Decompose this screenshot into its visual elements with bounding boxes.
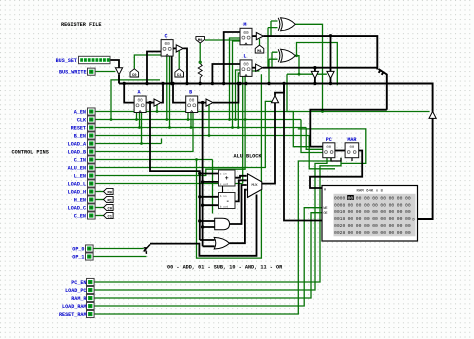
buffer bus out 2 (down) [327,71,334,78]
svg-text:B: B [189,90,192,96]
svg-text:0010: 0010 [334,209,345,215]
svg-text:LOAD_A: LOAD_A [68,141,87,147]
svg-text:ALU_EN: ALU_EN [68,165,86,171]
wire CLK net [95,38,323,153]
svg-text:0020: 0020 [334,223,345,229]
svg-text:00: 00 [364,195,370,201]
mux U7 [248,174,262,198]
or gate U6 [214,237,229,249]
svg-text:00: 00 [380,202,386,208]
svg-text:OE: OE [324,212,328,216]
svg-text:b out: b out [220,204,229,208]
junction B out [201,101,204,104]
svg-text:MUX: MUX [251,184,257,188]
svg-text:RAM 64K x 8: RAM 64K x 8 [356,190,383,194]
svg-text:H_EN: H_EN [74,197,86,203]
wire A_EN row [95,105,323,147]
wire B to ALU [203,103,219,247]
wire C_IN loop [95,74,261,258]
svg-text:00: 00 [372,230,378,236]
wire register C data in [147,52,172,84]
wire adder carry chain [222,186,224,193]
svg-text:00: 00 [356,195,362,201]
tunnel M1 sink [104,196,114,203]
junction L bus dots [313,34,332,69]
wire PC MAR green box [298,129,366,164]
wire register L data in [212,64,240,84]
svg-text:M1: M1 [257,50,262,54]
svg-text:00: 00 [348,209,354,215]
svg-text:00: 00 [397,223,403,229]
pin B_EN [88,132,96,139]
junction CLK dots [110,118,237,121]
wire bus to PC data [310,110,387,147]
wire MAR to RAM address [310,151,362,189]
svg-text:00: 00 [405,202,411,208]
register A [134,90,146,113]
svg-text:BUS_SET: BUS_SET [56,58,77,64]
junction A-ALU dots [198,172,201,223]
svg-text:00: 00 [364,209,370,215]
wire C_EN to tunnel C1 [95,215,104,217]
svg-text:PC: PC [326,137,332,143]
svg-text:00: 00 [364,216,370,222]
svg-text:00: 00 [372,202,378,208]
svg-text:LOAD_H: LOAD_H [68,189,86,195]
svg-text:C1: C1 [108,215,113,219]
wire PC_EN [94,158,341,282]
svg-text:ALU BLOCK: ALU BLOCK [234,154,263,160]
wire LOAD_L row [95,75,243,183]
svg-text:00: 00 [389,230,395,236]
buffer C [176,45,183,52]
svg-text:C: C [164,33,167,39]
pin RAM_R [87,294,95,301]
tunnel C1 sink [104,212,114,219]
wire register M out to buffer [251,35,256,37]
svg-text:00: 00 [380,209,386,215]
svg-text:00: 00 [389,202,395,208]
svg-text:C_EN: C_EN [74,213,86,219]
wire ALU_EN row [95,101,273,167]
wire M bus [263,36,377,69]
svg-text:00: 00 [349,146,354,150]
pin CLK [88,116,96,123]
tunnel C1 source [175,69,184,78]
buffer M [256,33,263,40]
pin PC_EN [87,278,95,285]
wire register L out to buffer [251,67,255,69]
pin LOAD_H [88,188,96,195]
svg-text:LOAD_PC: LOAD_PC [65,288,86,294]
svg-text:00: 00 [348,216,354,222]
register B [186,90,198,113]
svg-text:PC_EN: PC_EN [71,280,86,286]
svg-text:00: 00 [364,223,370,229]
svg-text:CLK: CLK [77,117,87,123]
wire B_EN row [208,134,211,137]
pin RESET_RAM [87,310,95,317]
ram U8 [322,186,418,242]
wire ALU out to bus buffer [262,84,284,184]
pin LOAD_A [88,140,96,147]
tunnel M0 source [196,37,205,43]
svg-text:0008: 0008 [334,202,345,208]
svg-text:00: 00 [356,209,362,215]
buffer L [256,64,263,71]
wire bus buffer 2 taps [330,36,332,84]
svg-text:0028: 0028 [334,230,345,236]
svg-text:00: 00 [348,202,354,208]
svg-text:00: 00 [397,209,403,215]
svg-text:+: + [225,175,229,182]
svg-text:00: 00 [397,230,403,236]
svg-text:00: 00 [372,216,378,222]
pin L_EN [88,172,96,179]
svg-text:00: 00 [364,230,370,236]
svg-text:D: D [412,219,414,223]
pin BUS_WRITE [88,68,96,75]
svg-text:CONTROL PINS: CONTROL PINS [12,150,49,156]
svg-text:0000: 0000 [334,195,345,201]
tunnel C0 sink [104,204,114,211]
svg-text:c out: c out [220,183,229,186]
svg-text:00: 00 [372,223,378,229]
wire LOAD_PC [94,158,327,290]
pin C_EN [88,212,96,219]
buffer B [206,99,213,106]
wire BUS_SET to bus buffer [110,60,119,68]
svg-text:c in: c in [220,171,227,175]
svg-text:b in: b in [220,194,227,198]
wire LOAD_B row [140,142,143,145]
splitter OP [144,245,150,254]
svg-text:LOAD_B: LOAD_B [68,149,86,155]
svg-text:00: 00 [405,216,411,222]
xor gate U2 [278,49,295,62]
wire BUS_WRITE enable [95,71,115,73]
register M [240,22,252,45]
svg-text:RESET_RAM: RESET_RAM [59,312,87,318]
svg-text:00: 00 [364,202,370,208]
pin OP_1 [86,253,94,260]
wire adder out to MUX [235,176,247,178]
svg-text:RESET: RESET [71,125,86,131]
junction RESET dots [138,126,240,129]
pin ALU_EN [88,164,96,171]
svg-text:00: 00 [356,202,362,208]
svg-text:REGISTER FILE: REGISTER FILE [61,22,101,28]
buffer ALU out (up) [271,96,278,103]
svg-text:00: 00 [397,216,403,222]
wire L bus [263,67,378,69]
svg-text:A_EN: A_EN [74,109,86,115]
wire PC to MAR [335,150,345,152]
svg-text:00: 00 [380,223,386,229]
svg-text:00: 00 [372,209,378,215]
svg-text:00: 00 [405,230,411,236]
wire tunnel M1 to buffer M enable [259,39,261,45]
svg-text:C0: C0 [132,74,137,78]
wire main data bus [119,75,433,112]
svg-text:00: 00 [405,195,411,201]
svg-text:M0: M0 [108,191,113,195]
wire tunnel C0 to register C load [134,55,161,69]
buffer bus out 1 (down) [311,71,318,78]
pin RESET [88,124,96,131]
svg-text:RAM_R: RAM_R [71,296,87,302]
wire LOAD_C to tunnel C0 [95,207,104,209]
svg-text:00: 00 [389,195,395,201]
wire register M data in [224,32,240,84]
wire buffer C to bus [183,48,187,83]
wire LOAD_A row [95,111,162,144]
svg-text:00: 00 [389,209,395,215]
svg-text:00: 00 [356,230,362,236]
adder U3 [219,170,236,186]
svg-text:WE: WE [324,207,328,211]
svg-text:M: M [243,22,246,28]
svg-text:00: 00 [389,216,395,222]
pin H_EN [88,196,96,203]
svg-text:B_EN: B_EN [74,133,86,139]
svg-text:LOAD_C: LOAD_C [68,205,86,211]
wire AND out to MUX [230,185,247,224]
svg-text:00: 00 [397,195,403,201]
svg-text:MAR: MAR [347,137,357,143]
pull resistor [198,61,202,83]
svg-text:00: 00 [389,223,395,229]
register L [240,54,252,77]
wire tunnel M0 to register M load [200,40,240,64]
wire MUX select [150,195,257,256]
wire buffer A to bus [161,84,163,103]
pin LOAD_PC [87,286,95,293]
pin OP_0 [86,245,94,252]
buffer bus write (down) [115,68,122,75]
wire register C out to buffer [173,47,176,49]
tunnel C0 source [130,69,139,78]
svg-text:00: 00 [380,195,386,201]
wire XOR1 inputs [268,21,278,68]
splitter ML [379,69,387,110]
svg-text:00: 00 [372,195,378,201]
wire XOR2 output to bus buffers enable [287,56,430,112]
wire bus buffer 1 taps [314,68,316,84]
svg-text:-: - [226,198,230,205]
junction enable dot [298,73,301,76]
register C [161,33,173,56]
svg-text:L_EN: L_EN [74,173,86,179]
wire XOR2 inputs [269,52,278,83]
wire register B out to buffer [198,102,206,104]
pin BUS_SET [79,56,111,63]
wire RAM_R [94,213,322,298]
wire register A data in [124,84,134,103]
wire A to ALU [150,103,219,240]
svg-text:C1: C1 [177,74,182,78]
wire subtractor out to MUX [235,180,247,201]
wire L_EN row [95,70,259,175]
wire RAM D to buffer [418,118,433,219]
wire RESET_RAM [94,158,331,314]
xor gate U1 [278,18,295,31]
buffer A [154,99,161,106]
svg-text:C0: C0 [108,207,113,211]
register PC [323,137,335,158]
pin LOAD_C [88,204,96,211]
wire register B data in [173,84,186,103]
svg-text:00: 00 [356,223,362,229]
pin A_EN [88,108,96,115]
svg-text:OP_0: OP_0 [72,246,84,252]
subtractor U4 [219,193,236,209]
svg-text:OP_1: OP_1 [72,254,84,260]
svg-text:00: 00 [405,223,411,229]
wire XOR1 output to RAM buffer enable [296,24,338,111]
pin LOAD_RAM [87,302,95,309]
wire OR out to MUX [230,190,247,244]
and gate U5 [215,218,230,230]
wire H_EN to tunnel M1 [95,199,104,201]
svg-text:00: 00 [380,216,386,222]
svg-text:M0: M0 [198,39,203,43]
svg-text:00: 00 [348,195,354,201]
buffer RAM out (up) [429,111,436,118]
svg-text:0018: 0018 [334,216,345,222]
tunnel M1 source [255,45,264,54]
wire register A out to buffer [146,102,154,104]
pin LOAD_L [88,180,96,187]
svg-text:C_IN: C_IN [74,157,86,163]
svg-text:00: 00 [326,146,331,150]
svg-text:00 - ADD, 01 - SUB, 10 - AND,: 00 - ADD, 01 - SUB, 10 - AND, 11 - OR [167,265,283,271]
svg-text:BUS_WRITE: BUS_WRITE [59,70,87,76]
svg-text:LOAD_L: LOAD_L [68,181,86,187]
pin C_IN [88,156,96,163]
svg-text:LOAD_RAM: LOAD_RAM [62,304,86,310]
tunnel M0 sink [104,188,114,195]
wire PC MAR clock stubs [331,158,352,161]
wire OP_1 [93,256,147,258]
wire RESET net [95,41,323,149]
svg-text:00: 00 [397,202,403,208]
svg-text:00: 00 [380,230,386,236]
svg-text:L: L [243,54,246,60]
svg-text:00: 00 [356,216,362,222]
svg-text:M1: M1 [108,199,113,203]
svg-text:00: 00 [348,230,354,236]
svg-text:00: 00 [348,223,354,229]
junction A out [148,101,151,104]
wire OP_0 [93,248,144,250]
svg-text:00: 00 [405,209,411,215]
wire buffer B to bus [213,84,238,103]
junction main bus dots [123,82,333,85]
wire bus to RAM data in [284,84,322,221]
register MAR [345,137,359,158]
junction B-ALU dots [201,180,204,229]
wire tunnel C1 to buffer C enable [178,51,180,69]
wire LOAD_RAM [94,208,322,306]
wire LOAD_H to tunnel M0 [95,191,104,193]
pin LOAD_B [88,148,96,155]
